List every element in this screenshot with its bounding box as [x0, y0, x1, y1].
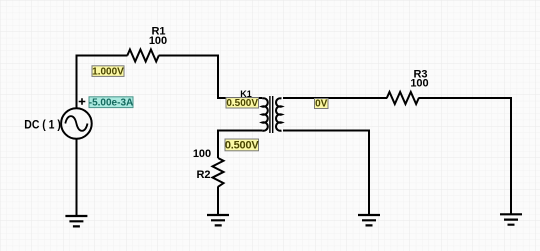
probe label 0V at K1 secondary	[315, 99, 329, 110]
source V1 sine wave	[65, 116, 87, 131]
transformer K1 core	[270, 96, 273, 133]
wire vertical down to R2	[217, 130, 219, 159]
svg-text:-5.00e-3A: -5.00e-3A	[89, 97, 133, 108]
transformer K1 primary winding	[262, 98, 267, 130]
resistor R2	[213, 158, 224, 187]
wire K1 secondary top to R3	[283, 97, 387, 99]
probe label 0.500V at K1 primary	[226, 98, 259, 109]
wire top-left rail (source to R1 row)	[77, 55, 128, 109]
svg-text:1.000V: 1.000V	[92, 66, 124, 77]
transformer K1 secondary winding	[276, 98, 281, 130]
probe label 1.000V	[92, 66, 124, 78]
ground left	[65, 216, 87, 226]
wire source to ground	[76, 139, 78, 216]
ground below R2	[207, 215, 229, 225]
ground right	[500, 214, 522, 224]
svg-text:DC ( 1 ): DC ( 1 )	[24, 119, 61, 132]
ground middle	[358, 215, 380, 225]
svg-text:0.500V: 0.500V	[226, 98, 258, 109]
source plus sign	[79, 98, 86, 105]
probe label 0.500V at R2 branch	[225, 139, 260, 151]
svg-text:0V: 0V	[315, 99, 328, 110]
resistor R1	[127, 50, 159, 62]
wire K1 primary top stub	[217, 97, 262, 99]
probe label -5.00e-3A	[89, 97, 133, 109]
svg-text:100: 100	[410, 78, 428, 90]
svg-text:100: 100	[193, 148, 211, 160]
wire R3 to right rail	[418, 97, 511, 99]
resistor R3	[387, 92, 419, 104]
wire R1 to corner	[159, 55, 219, 57]
wire vertical down to K1 primary top	[217, 55, 219, 99]
svg-text:100: 100	[149, 35, 167, 47]
svg-text:R2: R2	[196, 169, 210, 181]
wire K1 secondary bottom stub	[283, 130, 370, 132]
wire middle rail down	[368, 130, 370, 216]
source V1 circle	[61, 108, 92, 139]
svg-text:0.500V: 0.500V	[225, 139, 260, 151]
wire K1 primary bottom stub	[217, 130, 262, 132]
wire R2 to ground	[217, 187, 219, 216]
wire right rail down	[510, 97, 512, 214]
